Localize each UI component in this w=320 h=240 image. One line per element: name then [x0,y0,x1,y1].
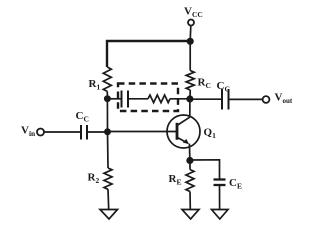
capacitor CE [214,180,226,186]
wire top rail [107,41,190,67]
svg-text:VCC: VCC [184,6,203,19]
wire R2 to ground [107,189,110,209]
wire Vin terminal to input capacitor [44,131,80,133]
wire CE to ground [219,186,221,210]
svg-text:Vin: Vin [21,125,36,139]
wire node A to feedback capacitor [107,98,120,100]
node A junction (R1 / feedback / base branch) [104,95,111,102]
wire base node to Q1 base [108,131,177,133]
svg-text:Vout: Vout [275,92,293,106]
resistor RE [186,170,194,192]
wire RC to node B [189,90,191,99]
capacitor CC (input coupling) [81,125,87,140]
wire base node to R2 [107,132,110,168]
svg-text:CC: CC [76,110,89,123]
node base junction [104,128,111,135]
wire output capacitor to Vout terminal [229,98,262,100]
ground under CE [212,210,229,220]
wire emitter node to CE [190,160,220,179]
resistor R2 [104,168,112,189]
svg-text:Q1: Q1 [204,127,217,140]
svg-text:RE: RE [169,173,182,186]
wire input capacitor to base node [88,131,108,133]
svg-text:CE: CE [229,177,242,190]
resistor R1 [103,67,111,91]
wire feedback capacitor to feedback resistor [129,98,148,100]
svg-text:RC: RC [198,77,211,90]
ground under R2 [100,210,118,220]
ground under RE [182,210,199,220]
capacitor CC (output coupling) [222,89,229,110]
transistor Q1 [167,115,200,148]
node Vout terminal [263,96,270,103]
svg-text:R2: R2 [88,172,100,185]
junction top rail / RC [187,38,194,45]
wire feedback resistor to node B [170,98,190,100]
wire emitter node to RE [189,161,191,170]
svg-text:CC: CC [217,80,230,93]
wire emitter lead [188,144,191,161]
wire VCC terminal to top rail [189,26,192,41]
wire R1 to node A [106,91,108,98]
node emitter junction [186,157,193,164]
svg-text:R1: R1 [89,78,101,91]
wire node B to output coupling capacitor [190,98,221,100]
node B junction (collector) [186,95,193,102]
capacitor Cf (feedback, inside dashed box) [122,91,129,108]
node VCC terminal [188,20,194,26]
resistor RC [186,71,194,91]
dashed feedback network box [118,84,178,112]
node Vin terminal [37,129,44,136]
wire node A down to base node [106,99,108,132]
resistor Rf (feedback, inside dashed box) [148,95,170,103]
wire RE to ground [189,192,191,210]
wire collector lead [189,99,191,117]
wire VCC rail to RC [189,41,191,71]
